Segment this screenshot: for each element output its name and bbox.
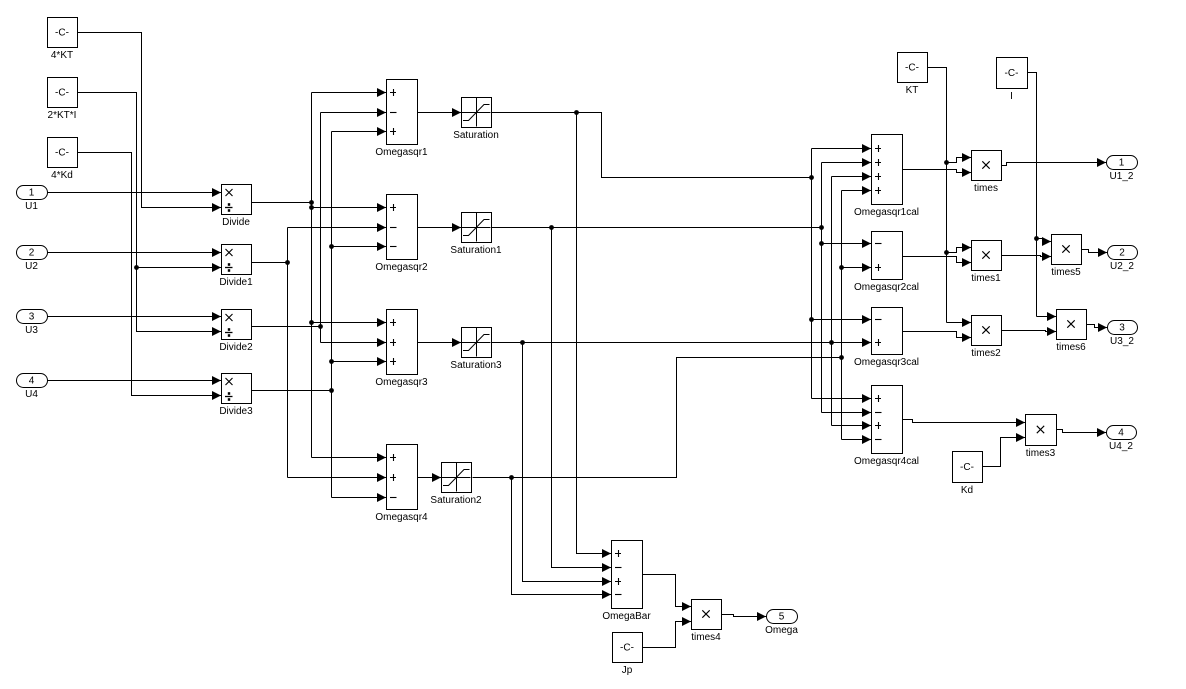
wire times4 to Omega outport — [722, 612, 767, 621]
constant 4*KT — [48, 18, 78, 62]
wire Divide1 out (U2 term) to Omegasqr2/4 — [252, 223, 387, 482]
svg-text:2: 2 — [1119, 248, 1125, 259]
wire 4*KT to Divide in2 — [78, 33, 222, 213]
product times1 — [971, 241, 1001, 285]
wire times6 to U3_2 — [1087, 323, 1108, 332]
svg-text:Divide2: Divide2 — [219, 342, 253, 353]
svg-text:times4: times4 — [691, 632, 721, 643]
wire Omegasqr1cal to times in2 — [903, 168, 972, 177]
svg-text:Saturation2: Saturation2 — [430, 495, 482, 506]
inport 2 U2 — [17, 246, 48, 273]
svg-text:Omegasqr2: Omegasqr2 — [375, 262, 428, 273]
constant 4*Kd — [48, 138, 78, 182]
svg-text:4: 4 — [29, 376, 35, 387]
saturation block Saturation3 — [450, 328, 502, 372]
constant Kd — [953, 452, 983, 497]
wire U1 to Divide in1 — [48, 188, 222, 197]
svg-text:Divide: Divide — [222, 217, 250, 228]
svg-text:2*KT*I: 2*KT*I — [48, 110, 77, 121]
inport 1 U1 — [17, 186, 48, 213]
svg-text:4*KT: 4*KT — [51, 50, 73, 61]
product times2 — [971, 316, 1001, 360]
svg-text:-C-: -C- — [905, 63, 919, 74]
svg-text:Omegasqr1cal: Omegasqr1cal — [854, 207, 919, 218]
wire Saturation3 out (omega3^2) to Omegasqr1cal/3cal/4cal and OmegaBar — [492, 172, 872, 586]
wire Omegasqr4 to Saturation2 — [418, 473, 442, 482]
svg-text:1: 1 — [29, 188, 35, 199]
wire Omegasqr2cal to times1 in2 — [903, 257, 972, 268]
saturation block Saturation2 — [430, 463, 482, 507]
svg-text:times6: times6 — [1056, 342, 1086, 353]
svg-text:Omegasqr4: Omegasqr4 — [375, 512, 428, 523]
outport 1 U1_2 — [1107, 156, 1138, 183]
svg-text:Kd: Kd — [961, 485, 973, 496]
svg-text:KT: KT — [906, 85, 919, 96]
wire KT to times/times1/times2 in1 — [928, 68, 972, 328]
svg-text:Jp: Jp — [622, 665, 633, 676]
wire Kd to times3 in2 — [983, 433, 1026, 467]
svg-text:Omegasqr2cal: Omegasqr2cal — [854, 282, 919, 293]
svg-text:Saturation1: Saturation1 — [450, 245, 502, 256]
wire Omegasqr2 to Saturation1 — [418, 223, 462, 232]
svg-text:-C-: -C- — [1005, 68, 1019, 79]
sum Omegasqr3 — [375, 310, 428, 389]
constant I — [997, 58, 1028, 103]
wire Saturation2 out (omega4^2) to Omegasqr1cal/2cal/4cal and OmegaBar — [473, 186, 872, 599]
svg-text:-C-: -C- — [620, 643, 634, 654]
sum OmegaBar — [602, 541, 651, 623]
product times6 — [1056, 310, 1086, 354]
outport 3 U3_2 — [1108, 321, 1138, 348]
svg-text:Saturation3: Saturation3 — [450, 360, 502, 371]
svg-text:Omegasqr4cal: Omegasqr4cal — [854, 456, 919, 467]
sum Omegasqr4 — [375, 445, 428, 524]
svg-text:Omegasqr1: Omegasqr1 — [375, 147, 428, 158]
svg-text:1: 1 — [1119, 158, 1125, 169]
wire Divide out (U1 term) to Omegasqr1/2/3/4 — [252, 88, 387, 462]
svg-text:U4: U4 — [25, 389, 38, 400]
svg-text:I: I — [1010, 91, 1013, 102]
wire Saturation out (omega1^2) to Omegasqr1cal/3cal/4cal and OmegaBar — [492, 110, 872, 558]
svg-text:U2: U2 — [25, 261, 38, 272]
sum Omegasqr2 — [375, 195, 428, 274]
constant 2*KT*I — [48, 78, 78, 122]
svg-text:Omegasqr3: Omegasqr3 — [375, 377, 428, 388]
svg-text:Omegasqr3cal: Omegasqr3cal — [854, 357, 919, 368]
wire times1 to times5 in2 — [1002, 252, 1052, 261]
wire Jp to times4 in2 — [643, 617, 692, 648]
svg-text:-C-: -C- — [55, 28, 69, 39]
wire U3 to Divide2 in1 — [48, 312, 222, 321]
wire times to U1_2 — [1002, 158, 1107, 167]
constant Jp — [613, 633, 643, 677]
product times4 — [691, 600, 721, 644]
svg-text:3: 3 — [29, 312, 35, 323]
svg-text:5: 5 — [779, 612, 785, 623]
svg-text:4*Kd: 4*Kd — [51, 170, 73, 181]
inport 4 U4 — [17, 374, 48, 401]
svg-text:times5: times5 — [1051, 267, 1081, 278]
svg-text:U4_2: U4_2 — [1109, 441, 1133, 452]
divide block Divide — [222, 185, 252, 229]
product times5 — [1051, 235, 1081, 279]
product times3 — [1026, 415, 1057, 460]
svg-text:Divide3: Divide3 — [219, 406, 253, 417]
sum Omegasqr1 — [375, 80, 428, 159]
outport 4 U4_2 — [1107, 426, 1137, 453]
svg-text:times: times — [974, 183, 998, 194]
wire times2 to times6 in2 — [1002, 327, 1057, 336]
wire times5 to U2_2 — [1082, 248, 1108, 257]
sum Omegasqr4cal — [854, 386, 919, 468]
wire Omegasqr4cal to times3 in1 — [903, 418, 1026, 427]
wire Omegasqr1 to Saturation — [418, 108, 462, 117]
wire Divide2 out (U3 term) to Omegasqr1/3 — [252, 108, 387, 347]
svg-text:times1: times1 — [971, 273, 1001, 284]
wire 4*Kd to Divide3 in2 — [78, 153, 222, 401]
saturation block Saturation1 — [450, 213, 502, 257]
wire Saturation1 out (omega2^2) to Omegasqr1cal/2cal/4cal and OmegaBar — [492, 158, 872, 572]
inport 3 U3 — [17, 310, 48, 337]
wire Omegasqr3 to Saturation3 — [418, 338, 462, 347]
product times — [972, 151, 1002, 195]
sum Omegasqr1cal — [854, 135, 919, 219]
divide block Divide2 — [219, 310, 253, 354]
svg-text:3: 3 — [1119, 323, 1125, 334]
svg-text:Saturation: Saturation — [453, 130, 499, 141]
svg-text:OmegaBar: OmegaBar — [602, 611, 651, 622]
svg-text:U3: U3 — [25, 325, 38, 336]
svg-text:2: 2 — [29, 248, 35, 259]
svg-text:4: 4 — [1118, 428, 1124, 439]
saturation block Saturation — [453, 98, 499, 142]
wire U4 to Divide3 in1 — [48, 376, 222, 385]
svg-text:Divide1: Divide1 — [219, 277, 253, 288]
svg-text:U2_2: U2_2 — [1110, 261, 1134, 272]
wire U2 to Divide1 in1 — [48, 248, 222, 257]
wire Omegasqr3cal to times2 in2 — [903, 332, 972, 343]
svg-text:times2: times2 — [971, 348, 1001, 359]
wire Divide3 out (U4 term) to Omegasqr1/2/3/4 — [252, 127, 387, 502]
wire 2*KT*I to Divide1 in2 and Divide2 in2 — [78, 93, 222, 337]
wire OmegaBar to times4 in1 — [643, 575, 692, 612]
divide block Divide3 — [219, 374, 253, 418]
svg-text:times3: times3 — [1026, 448, 1056, 459]
outport 5 Omega — [765, 610, 798, 637]
svg-text:U1: U1 — [25, 201, 38, 212]
divide block Divide1 — [219, 245, 253, 289]
svg-text:U1_2: U1_2 — [1110, 171, 1134, 182]
svg-text:Omega: Omega — [765, 625, 798, 636]
svg-text:-C-: -C- — [55, 148, 69, 159]
wire times3 to U4_2 — [1057, 428, 1107, 437]
sum Omegasqr2cal — [854, 232, 919, 294]
svg-text:U3_2: U3_2 — [1110, 336, 1134, 347]
sum Omegasqr3cal — [854, 308, 919, 369]
outport 2 U2_2 — [1108, 246, 1138, 273]
wire I to times5/times6 in1 — [1028, 73, 1057, 322]
svg-text:-C-: -C- — [55, 88, 69, 99]
svg-text:-C-: -C- — [960, 462, 974, 473]
constant KT — [898, 53, 928, 97]
